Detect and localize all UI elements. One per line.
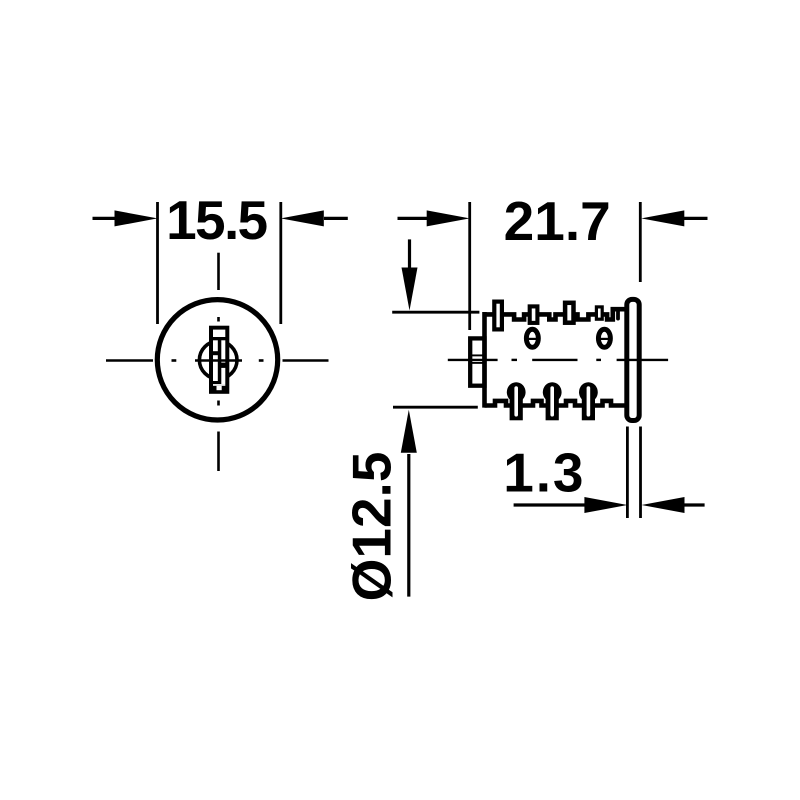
- svg-text:Ø12.5: Ø12.5: [341, 452, 403, 602]
- svg-text:21.7: 21.7: [504, 190, 611, 252]
- svg-text:15.5: 15.5: [166, 189, 267, 251]
- svg-text:1.3: 1.3: [503, 441, 585, 503]
